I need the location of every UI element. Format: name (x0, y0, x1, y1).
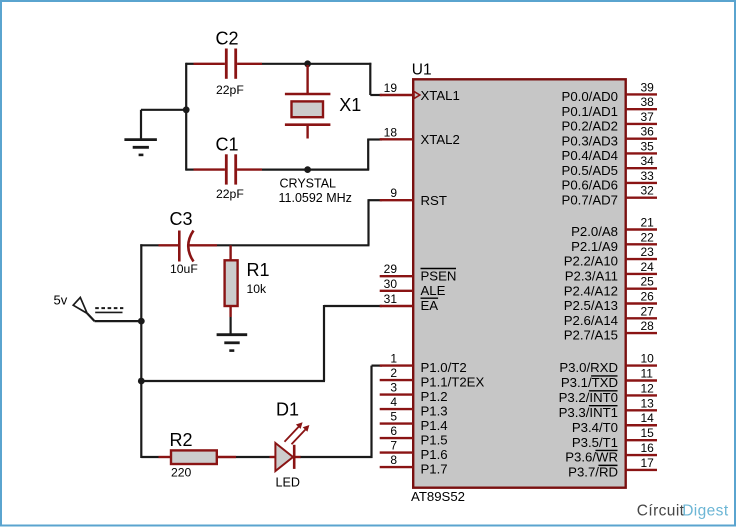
capacitor C3 (electrolytic) (159, 209, 218, 276)
pin 30 ALE (left) (380, 277, 446, 298)
pin 16 P3.6/WR (right) (565, 441, 657, 465)
svg-text:RST: RST (421, 193, 447, 208)
svg-text:P3.4/T0: P3.4/T0 (572, 420, 618, 435)
svg-text:Círcuit: Círcuit (637, 502, 685, 519)
pin 2 P1.1/T2EX (left) (380, 366, 485, 389)
svg-text:XTAL2: XTAL2 (421, 132, 460, 147)
svg-text:10k: 10k (247, 282, 268, 296)
IC U1 AT89S52 body (413, 79, 626, 487)
svg-text:AT89S52: AT89S52 (411, 489, 465, 504)
svg-text:P0.2/AD2: P0.2/AD2 (562, 119, 618, 134)
pin 12 P3.2/INT0 (right) (559, 381, 657, 405)
pin 19 XTAL1 (left) (380, 81, 460, 103)
wire: R2 to LED (236, 456, 270, 458)
svg-text:P0.4/AD4: P0.4/AD4 (562, 148, 618, 163)
svg-text:36: 36 (641, 125, 655, 139)
wire: C2 row (top row to crystal and XTAL1 riser) (186, 63, 382, 95)
node: junction C1 row / crystal bottom (304, 166, 311, 173)
wire: R2 row left segment (141, 456, 158, 458)
svg-text:P3.5/T1: P3.5/T1 (572, 435, 618, 450)
pin 4 P1.3 (left) (380, 395, 448, 418)
svg-text:4: 4 (390, 395, 397, 409)
wire: C3 row left segment (140, 244, 158, 246)
svg-text:15: 15 (641, 426, 655, 440)
svg-text:D1: D1 (276, 400, 299, 420)
svg-text:37: 37 (641, 110, 655, 124)
pin 18 XTAL2 (left) (380, 125, 460, 147)
svg-text:6: 6 (390, 424, 397, 438)
svg-text:24: 24 (641, 260, 655, 274)
svg-text:R2: R2 (170, 430, 193, 450)
wire: EA net from rail to pin 31 (140, 305, 382, 381)
pin 29 PSEN (left) (380, 262, 457, 283)
svg-text:P1.1/T2EX: P1.1/T2EX (421, 374, 485, 389)
svg-text:P3.2/INT0: P3.2/INT0 (559, 390, 618, 405)
svg-text:10uF: 10uF (170, 262, 198, 276)
ground (crystal caps) (124, 110, 156, 155)
pin 6 P1.5 (left) (380, 424, 448, 447)
node: junction C2 row / crystal top (304, 60, 311, 67)
overline PSEN (421, 268, 457, 270)
pin 36 P0.3/AD3 (right) (562, 125, 657, 149)
svg-text:16: 16 (641, 441, 655, 455)
svg-text:P0.0/AD0: P0.0/AD0 (562, 89, 618, 104)
svg-text:22pF: 22pF (216, 83, 244, 97)
node: junction 5v / rail (138, 318, 145, 325)
pin 23 P2.2/A10 (right) (564, 245, 657, 269)
svg-text:35: 35 (641, 139, 655, 153)
svg-text:P1.6: P1.6 (421, 447, 448, 462)
pin 39 P0.0/AD0 (right) (562, 80, 657, 104)
svg-text:38: 38 (641, 95, 655, 109)
svg-text:P3.7/RD: P3.7/RD (568, 465, 618, 480)
svg-text:13: 13 (641, 396, 655, 410)
svg-text:28: 28 (641, 319, 655, 333)
pin 34 P0.5/AD5 (right) (562, 154, 657, 178)
pin 26 P2.5/A13 (right) (564, 290, 657, 314)
pin 35 P0.4/AD4 (right) (562, 139, 657, 163)
svg-text:P2.6/A14: P2.6/A14 (564, 313, 618, 328)
pin 25 P2.4/A12 (right) (564, 275, 657, 299)
pin 38 P0.1/AD1 (right) (562, 95, 657, 119)
svg-text:33: 33 (641, 169, 655, 183)
svg-text:30: 30 (384, 277, 398, 291)
capacitor C1 (194, 134, 263, 201)
overline TXD (591, 375, 617, 377)
pin 5 P1.4 (left) (380, 410, 448, 433)
overline INT0 (589, 390, 618, 392)
svg-text:P0.7/AD7: P0.7/AD7 (562, 192, 618, 207)
svg-text:P2.7/A15: P2.7/A15 (564, 328, 618, 343)
svg-text:PSEN: PSEN (421, 268, 457, 283)
svg-text:C2: C2 (216, 28, 239, 48)
resistor R1 (225, 245, 270, 317)
svg-text:P3.6/WR: P3.6/WR (565, 450, 618, 465)
svg-text:22pF: 22pF (216, 187, 244, 201)
svg-text:P2.3/A11: P2.3/A11 (565, 269, 618, 284)
CircuitDigest logo (637, 502, 729, 519)
pin 3 P1.2 (left) (380, 381, 448, 404)
svg-text:P1.2: P1.2 (421, 389, 448, 404)
pin 28 P2.7/A15 (right) (564, 319, 657, 343)
svg-text:P1.3: P1.3 (421, 403, 448, 418)
svg-text:CRYSTAL: CRYSTAL (280, 176, 337, 190)
wire: left rail from C3 to R2 row (140, 244, 142, 458)
pin 33 P0.6/AD6 (right) (562, 169, 657, 193)
svg-text:P1.4: P1.4 (421, 418, 448, 433)
svg-text:P0.6/AD6: P0.6/AD6 (562, 178, 618, 193)
svg-text:11.0592 MHz: 11.0592 MHz (279, 191, 352, 205)
pin 31 EA (left) (380, 292, 439, 313)
svg-text:17: 17 (641, 456, 655, 470)
power terminal 5v (54, 293, 124, 322)
svg-text:5: 5 (390, 410, 397, 424)
pin 9 RST (left) (380, 186, 447, 208)
node: junction ground / rail (183, 106, 190, 113)
svg-text:5v: 5v (54, 293, 68, 308)
svg-text:31: 31 (384, 292, 398, 306)
svg-text:P1.5: P1.5 (421, 432, 448, 447)
svg-text:220: 220 (171, 466, 192, 480)
svg-text:8: 8 (390, 453, 397, 467)
svg-text:7: 7 (390, 439, 397, 453)
overline INT1 (589, 405, 618, 407)
pin 10 P3.0/RXD (right) (559, 352, 657, 376)
LED D1 (270, 400, 310, 490)
svg-text:P0.3/AD3: P0.3/AD3 (562, 133, 618, 148)
pin 13 P3.3/INT1 (right) (559, 396, 657, 420)
svg-text:X1: X1 (339, 95, 361, 115)
svg-text:21: 21 (641, 216, 655, 230)
pin 1 P1.0/T2 (left) (380, 352, 467, 375)
svg-text:P1.7: P1.7 (421, 461, 448, 476)
pin 15 P3.5/T1 (right) (572, 426, 657, 450)
capacitor C2 (194, 28, 263, 97)
crystal X1 (279, 65, 362, 205)
svg-text:EA: EA (421, 298, 439, 313)
svg-text:26: 26 (641, 290, 655, 304)
wire: C1 row (bottom row to crystal and XTAL2 riser) (186, 139, 382, 170)
ground (R1) (217, 317, 248, 351)
pin 27 P2.6/A14 (right) (564, 304, 657, 328)
svg-text:23: 23 (641, 245, 655, 259)
svg-text:P3.1/TXD: P3.1/TXD (561, 375, 618, 390)
svg-text:19: 19 (384, 81, 398, 95)
svg-text:P2.1/A9: P2.1/A9 (571, 239, 618, 254)
pin 22 P2.1/A9 (right) (571, 230, 657, 254)
svg-text:2: 2 (390, 366, 397, 380)
svg-text:ALE: ALE (421, 283, 446, 298)
svg-text:1: 1 (390, 352, 397, 366)
pin 7 P1.6 (left) (380, 439, 448, 462)
svg-text:12: 12 (641, 381, 655, 395)
svg-text:P2.0/A8: P2.0/A8 (571, 224, 618, 239)
resistor R2 (159, 430, 237, 480)
svg-text:P0.5/AD5: P0.5/AD5 (562, 163, 618, 178)
overline RD (598, 464, 617, 466)
svg-text:11: 11 (641, 367, 654, 381)
svg-text:14: 14 (641, 411, 655, 425)
svg-text:Digest: Digest (682, 502, 729, 519)
svg-text:P0.1/AD1: P0.1/AD1 (562, 104, 618, 119)
svg-text:29: 29 (384, 262, 398, 276)
overline EA (421, 297, 439, 299)
svg-text:R1: R1 (247, 260, 270, 280)
pin 37 P0.2/AD2 (right) (562, 110, 657, 134)
pin 32 P0.7/AD7 (right) (562, 184, 657, 208)
svg-text:P3.0/RXD: P3.0/RXD (559, 360, 618, 375)
svg-text:P2.2/A10: P2.2/A10 (564, 254, 618, 269)
svg-text:22: 22 (641, 230, 655, 244)
svg-text:P3.3/INT1: P3.3/INT1 (559, 405, 618, 420)
overline WR (596, 449, 618, 451)
svg-text:34: 34 (641, 154, 655, 168)
svg-text:3: 3 (390, 381, 397, 395)
wire: LED to pin 1 riser (300, 366, 382, 458)
svg-text:P2.5/A13: P2.5/A13 (564, 298, 618, 313)
pin 24 P2.3/A11 (right) (565, 260, 657, 284)
svg-text:27: 27 (641, 304, 655, 318)
wire: 5v to left rail (95, 320, 143, 322)
svg-text:P1.0/T2: P1.0/T2 (421, 360, 467, 375)
pin 21 P2.0/A8 (right) (571, 216, 657, 240)
pin 8 P1.7 (left) (380, 453, 448, 476)
wire: left rail between C2 and C1 rows (185, 63, 187, 171)
svg-text:9: 9 (390, 186, 397, 200)
svg-text:P2.4/A12: P2.4/A12 (564, 283, 618, 298)
svg-text:C1: C1 (216, 134, 239, 154)
svg-text:XTAL1: XTAL1 (421, 88, 460, 103)
svg-text:25: 25 (641, 275, 655, 289)
svg-text:LED: LED (276, 476, 301, 490)
svg-text:C3: C3 (170, 209, 193, 229)
svg-text:39: 39 (641, 80, 655, 94)
wire: RST riser from C3 row to pin 9 (217, 199, 382, 245)
svg-text:10: 10 (641, 352, 655, 366)
pin 14 P3.4/T0 (right) (572, 411, 657, 435)
pin 17 P3.7/RD (right) (568, 456, 657, 480)
wire: ground to left rail (top) (141, 109, 187, 111)
svg-text:U1: U1 (412, 61, 432, 78)
node: junction EA wire / rail (138, 378, 145, 385)
svg-text:32: 32 (641, 184, 655, 198)
pin 11 P3.1/TXD (right) (561, 367, 657, 391)
svg-text:18: 18 (384, 125, 398, 139)
